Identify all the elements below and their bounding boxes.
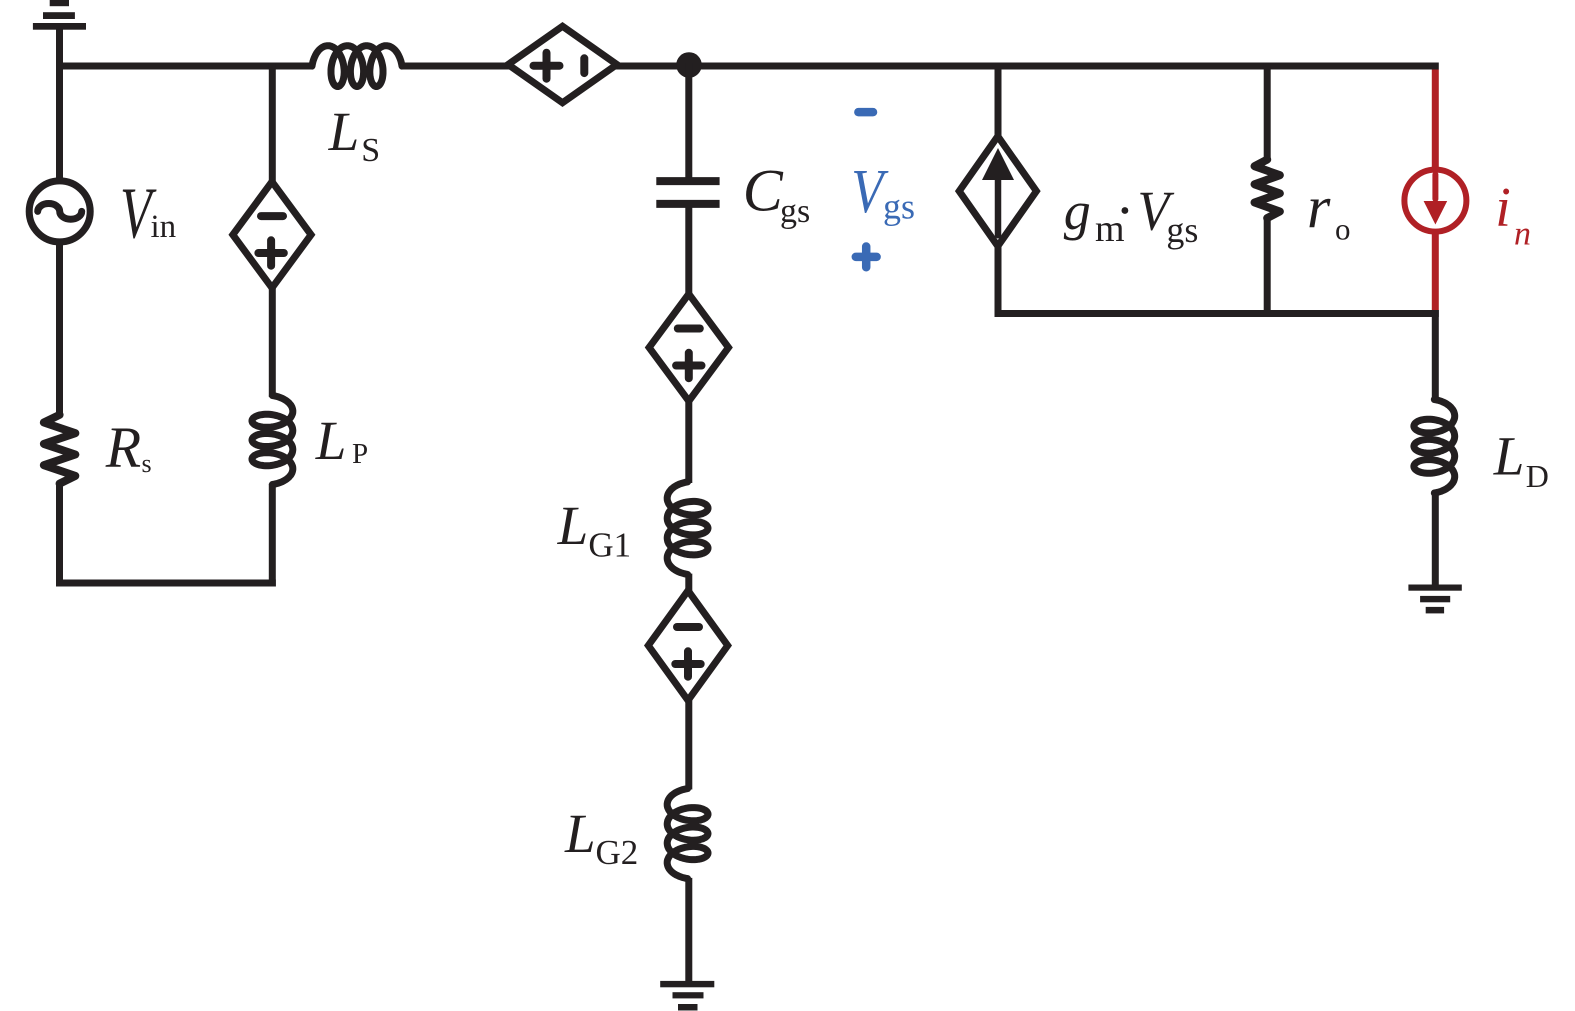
wire branch2 lower (269, 484, 276, 587)
wire ro branch lower (1264, 217, 1271, 317)
wire gm branch upper (995, 63, 1002, 139)
ground (top-left, inverted) (33, 23, 86, 30)
wire top bus right segment (615, 63, 1438, 70)
wire in branch lower (red) (1432, 234, 1439, 311)
wire U3 to LG1 (685, 400, 692, 483)
svg-text:L: L (315, 410, 347, 471)
svg-text:P: P (352, 438, 368, 470)
svg-text:L: L (328, 101, 360, 162)
wire in branch upper (red) (1432, 70, 1439, 168)
dependent source U2 (diamond -/+) (233, 182, 311, 288)
wire LG2 to ground (685, 878, 692, 984)
wire Cgs to U3 (685, 208, 692, 296)
svg-text:D: D (1526, 458, 1549, 494)
U4 minus sign (677, 623, 699, 631)
wire ground stub to top bus (56, 29, 63, 70)
svg-text:r: r (1307, 175, 1331, 241)
node Vgs plus mark (856, 247, 877, 268)
svg-text:n: n (1514, 215, 1531, 252)
wire box to LD (1432, 310, 1439, 401)
svg-text:G2: G2 (596, 833, 639, 872)
inductor LS coil (312, 46, 402, 87)
svg-text:L: L (1493, 426, 1525, 487)
node A junction dot (676, 52, 702, 78)
svg-text:i: i (1495, 177, 1511, 239)
wire top bus left segment (56, 63, 313, 70)
gm source arrow (995, 179, 1002, 235)
svg-text:gs: gs (780, 193, 810, 230)
svg-text:L: L (564, 803, 596, 864)
U4 plus sign (675, 651, 700, 676)
wire left branch lower (56, 483, 63, 587)
svg-text:G1: G1 (588, 525, 631, 564)
svg-text:L: L (557, 495, 589, 556)
svg-text:g: g (1064, 181, 1091, 241)
node Vgs minus mark (858, 108, 873, 117)
inductor LD coil (1414, 400, 1455, 494)
ground (bottom-right) (1408, 585, 1461, 591)
U3 plus sign (676, 353, 701, 378)
dependent source U3 (diamond -/+) (649, 294, 728, 401)
svg-text:in: in (151, 209, 177, 245)
U1 plus sign (534, 53, 560, 79)
svg-text:C: C (743, 157, 784, 223)
current source in (red circle) (1404, 170, 1466, 232)
wire left branch upper (56, 63, 63, 183)
source Vin (AC) (29, 181, 90, 242)
svg-text:s: s (142, 449, 152, 478)
wire U4 to LG2 (685, 699, 692, 790)
dependent source U4 (diamond -/+) (648, 591, 727, 701)
wire LD to ground (1432, 492, 1439, 588)
capacitor Cgs (656, 177, 719, 185)
wire left branch middle (56, 241, 63, 416)
dependent current source gm*Vgs (diamond) (959, 136, 1036, 246)
svg-text:m: m (1095, 208, 1125, 250)
inductor LG1 coil (667, 482, 708, 575)
ground (bottom-middle) (660, 981, 714, 987)
wire branch2 upper (269, 63, 276, 184)
svg-text:S: S (361, 132, 380, 169)
U1 minus bar (rotated) (580, 58, 588, 73)
dependent source U1 (series diamond) (508, 26, 617, 102)
resistor ro (1255, 160, 1280, 219)
wire node to Cgs (685, 63, 692, 178)
U2 plus sign (258, 240, 283, 265)
U2 minus sign (261, 212, 283, 220)
resistor Rs (44, 415, 76, 484)
wire bottom-left return (56, 580, 276, 587)
wire LG1 to U4 (685, 574, 692, 592)
wire branch2 middle (269, 287, 276, 398)
svg-text:gs: gs (1166, 210, 1198, 250)
svg-text:gs: gs (883, 186, 915, 226)
inductor LP coil (252, 396, 293, 485)
wire right box bottom (995, 310, 1439, 317)
svg-text:R: R (105, 415, 141, 480)
wire ro branch upper (1264, 63, 1271, 162)
wire gm branch lower (995, 245, 1002, 318)
inductor LG2 coil (667, 789, 708, 879)
wire top bus middle segment (401, 63, 510, 70)
svg-text:o: o (1335, 211, 1350, 246)
U3 minus sign (678, 325, 700, 333)
